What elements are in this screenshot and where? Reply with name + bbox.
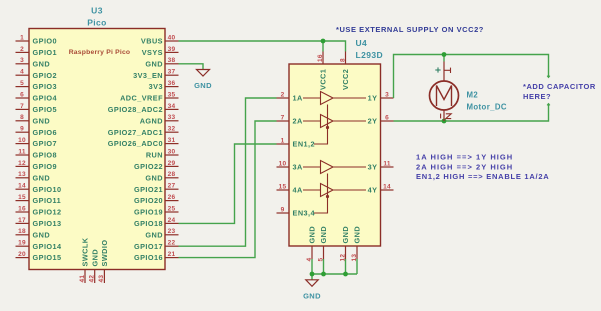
junction motor bottom [442, 119, 447, 124]
U4 pin 7 2A (left) [277, 114, 304, 125]
svg-text:2: 2 [20, 46, 24, 53]
svg-text:14: 14 [383, 183, 391, 190]
motor + mark [435, 67, 440, 72]
svg-text:EN1,2: EN1,2 [293, 140, 316, 149]
note: add capacitor here [523, 82, 596, 101]
U3 pin 15 GPIO11 (left) [16, 194, 62, 205]
svg-text:AGND: AGND [140, 116, 163, 125]
svg-text:4A: 4A [293, 186, 304, 195]
wire VBUS to VCC1/VCC2 [179, 41, 346, 52]
svg-text:2: 2 [281, 91, 285, 98]
svg-text:GPIO22: GPIO22 [134, 162, 163, 171]
wire GPIO16 to 2A [179, 121, 277, 258]
svg-text:1A HIGH ==> 1Y HIGH: 1A HIGH ==> 1Y HIGH [416, 153, 513, 162]
svg-text:M2: M2 [467, 91, 479, 100]
svg-text:VBUS: VBUS [141, 37, 163, 46]
ground symbol near U3 pin 38 [194, 70, 212, 91]
svg-text:GPIO20: GPIO20 [134, 196, 163, 205]
U3 pin 19 GPIO14 (left) [16, 240, 63, 251]
svg-text:GPIO11: GPIO11 [33, 196, 62, 205]
svg-text:GND: GND [90, 249, 99, 267]
U4 pin 12 GND (bottom) [339, 226, 350, 262]
svg-text:SWCLK: SWCLK [81, 237, 90, 266]
svg-text:27: 27 [168, 183, 176, 190]
svg-text:L293D: L293D [356, 50, 384, 60]
svg-text:3V3_EN: 3V3_EN [133, 71, 163, 80]
svg-text:20: 20 [18, 251, 26, 258]
U3 pin 22 GPIO17 (right) [134, 240, 179, 251]
U3 pin 20 GPIO15 (left) [16, 251, 62, 262]
wire GPIO17 to 1A [179, 98, 277, 246]
svg-text:32: 32 [168, 126, 176, 133]
svg-text:GPIO1: GPIO1 [33, 48, 58, 57]
svg-text:GPIO10: GPIO10 [33, 185, 62, 194]
U4 pin 13 GND (bottom) [351, 226, 362, 262]
svg-text:8: 8 [339, 58, 346, 62]
U4 pin 16 VCC1 (top) [317, 52, 328, 91]
U4 enable line EN3,4 [314, 174, 329, 214]
U3 pin 17 GPIO13 (left) [16, 217, 62, 228]
svg-text:33: 33 [168, 114, 176, 121]
svg-text:GPIO12: GPIO12 [33, 208, 62, 217]
U3 pin 26 GPIO20 (right) [134, 194, 179, 205]
svg-text:3V3: 3V3 [149, 82, 163, 91]
svg-text:GND: GND [353, 226, 362, 244]
svg-text:36: 36 [168, 80, 176, 87]
U4 pin 6 2Y (right) [368, 114, 394, 125]
U4 pin 2 1A (left) [277, 91, 304, 102]
svg-text:GND: GND [145, 173, 163, 182]
svg-text:ADC_VREF: ADC_VREF [120, 94, 163, 103]
svg-text:HERE?: HERE? [523, 92, 551, 101]
U3 pin 5 GPIO3 (left) [16, 80, 58, 91]
svg-text:1: 1 [20, 34, 24, 41]
dangling wire end top [547, 76, 550, 78]
U3 pin 18 GND (left) [16, 228, 51, 239]
motor M2 Motor_DC [430, 62, 459, 122]
U3 pin 35 ADC_VREF (right) [120, 91, 178, 102]
svg-text:GND: GND [145, 59, 163, 68]
U3 pin 40 VBUS (right) [141, 34, 179, 45]
svg-text:2A HIGH ==> 2Y HIGH: 2A HIGH ==> 2Y HIGH [416, 162, 513, 171]
U3 pin 31 GPIO26_ADC0 (right) [108, 137, 179, 148]
U3 pin 3 GND (left) [16, 57, 51, 68]
wire 1Y to motor + rail [394, 55, 549, 99]
U4 pin 9 EN3,4 (left) [277, 206, 316, 217]
svg-text:3: 3 [385, 91, 389, 98]
svg-text:22: 22 [168, 240, 176, 247]
svg-text:U4: U4 [356, 38, 368, 48]
U3 pin 30 RUN (right) [146, 148, 179, 159]
U4 pin 5 GND (bottom) [317, 226, 328, 262]
note: logic description [416, 153, 549, 182]
U3 pin 29 GPIO22 (right) [134, 160, 179, 171]
svg-text:19: 19 [18, 240, 26, 247]
svg-text:3A: 3A [293, 163, 304, 172]
svg-text:GND: GND [308, 226, 317, 244]
svg-text:*USE EXTERNAL SUPPLY ON VCC2?: *USE EXTERNAL SUPPLY ON VCC2? [336, 25, 484, 34]
svg-text:GND: GND [194, 81, 212, 90]
svg-text:3: 3 [20, 57, 24, 64]
U3 pin 9 GPIO6 (left) [16, 126, 58, 137]
svg-text:GND: GND [341, 226, 350, 244]
U3 pin 27 GPIO21 (right) [134, 183, 179, 194]
svg-text:GPIO4: GPIO4 [33, 94, 58, 103]
U3 pin 12 GPIO9 (left) [16, 160, 58, 171]
svg-text:3Y: 3Y [368, 163, 378, 172]
svg-text:41: 41 [79, 275, 86, 283]
U3 pin 28 GND (right) [145, 171, 178, 182]
U3 pin 13 GND (left) [16, 171, 51, 182]
svg-text:GPIO8: GPIO8 [33, 151, 58, 160]
svg-text:28: 28 [168, 171, 176, 178]
U3 pin 37 3V3_EN (right) [133, 69, 178, 80]
wire branch to VCC1 [322, 41, 324, 52]
svg-text:9: 9 [20, 126, 24, 133]
svg-text:GPIO18: GPIO18 [134, 219, 163, 228]
svg-text:GPIO13: GPIO13 [33, 219, 62, 228]
junction gnd bus 2 [321, 272, 326, 277]
U3 pin 23 GND (right) [145, 228, 178, 239]
svg-text:VSYS: VSYS [142, 48, 163, 57]
U4 pin 4 GND (bottom) [306, 226, 317, 262]
svg-text:VCC2: VCC2 [341, 69, 350, 90]
svg-text:23: 23 [168, 228, 176, 235]
U4 pin 1 EN1,2 (left) [277, 137, 316, 148]
svg-text:10: 10 [18, 137, 26, 144]
U3 pin 1 GPIO0 (left) [16, 34, 58, 45]
svg-text:12: 12 [18, 160, 26, 167]
svg-text:U3: U3 [91, 6, 103, 16]
U3 pin 34 GPIO28_ADC2 (right) [108, 103, 179, 114]
svg-text:6: 6 [385, 114, 389, 121]
U3 pin 7 GPIO5 (left) [16, 103, 58, 114]
U4 internal buffer 2 [303, 115, 366, 128]
svg-text:34: 34 [168, 103, 176, 110]
U3 pin 36 3V3 (right) [149, 80, 179, 91]
svg-text:11: 11 [383, 160, 390, 167]
svg-text:1A: 1A [293, 94, 304, 103]
svg-text:17: 17 [18, 217, 26, 224]
U4 internal buffer 1 [303, 92, 366, 105]
svg-text:GPIO2: GPIO2 [33, 71, 58, 80]
wire GPIO18 to EN1,2 [179, 144, 277, 223]
svg-text:5: 5 [20, 80, 24, 87]
svg-text:9: 9 [281, 206, 285, 213]
IC U3 Raspberry Pi Pico body [29, 29, 165, 270]
U3 pin 25 GPIO19 (right) [134, 205, 179, 216]
svg-text:18: 18 [18, 228, 26, 235]
junction motor top [442, 52, 447, 57]
svg-text:GPIO26_ADC0: GPIO26_ADC0 [108, 139, 163, 148]
svg-text:1: 1 [281, 137, 285, 144]
svg-text:16: 16 [317, 54, 324, 62]
U3 pin 41 SWCLK (bottom) [79, 237, 90, 283]
U4 enable line EN1,2 [314, 105, 329, 145]
svg-text:RUN: RUN [146, 151, 163, 160]
svg-text:29: 29 [168, 160, 176, 167]
svg-text:GPIO17: GPIO17 [134, 242, 163, 251]
svg-text:21: 21 [168, 251, 176, 258]
svg-text:GND: GND [33, 116, 51, 125]
svg-text:13: 13 [18, 171, 26, 178]
svg-text:4: 4 [20, 69, 24, 76]
svg-text:8: 8 [20, 114, 24, 121]
U3 pin 24 GPIO18 (right) [134, 217, 179, 228]
svg-text:2A: 2A [293, 117, 304, 126]
svg-text:GPIO0: GPIO0 [33, 37, 58, 46]
svg-text:35: 35 [168, 91, 176, 98]
svg-text:Raspberry Pi Pico: Raspberry Pi Pico [69, 49, 131, 56]
svg-text:38: 38 [168, 57, 176, 64]
svg-text:37: 37 [168, 69, 176, 76]
U3 pin 6 GPIO4 (left) [16, 91, 58, 102]
ground symbol under U4 [303, 280, 321, 301]
svg-text:Motor_DC: Motor_DC [467, 103, 507, 112]
svg-text:16: 16 [18, 205, 26, 212]
junction gnd bus 3 [343, 272, 348, 277]
dangling wire end bottom [547, 104, 550, 106]
junction VBUS/VCC1 [321, 39, 326, 44]
svg-text:GPIO14: GPIO14 [33, 242, 63, 251]
wire GND bus under U4 [312, 259, 357, 280]
svg-text:6: 6 [20, 91, 24, 98]
svg-text:42: 42 [89, 275, 96, 283]
svg-text:GND: GND [319, 226, 328, 244]
U3 pin 21 GPIO16 (right) [134, 251, 179, 262]
wire 2Y to motor - rail [394, 104, 549, 122]
U4 pin 15 4A (left) [277, 183, 304, 194]
svg-text:7: 7 [20, 103, 24, 110]
U3 pin 10 GPIO7 (left) [16, 137, 58, 148]
U3 pin 43 SWDIO (bottom) [98, 240, 109, 283]
svg-text:GPIO3: GPIO3 [33, 82, 58, 91]
svg-text:15: 15 [279, 183, 287, 190]
svg-text:1Y: 1Y [368, 94, 378, 103]
U3 pin 2 GPIO1 (left) [16, 46, 58, 57]
U3 pin 33 AGND (right) [140, 114, 179, 125]
svg-text:GND: GND [145, 230, 163, 239]
U3 pin 32 GPIO27_ADC1 (right) [108, 126, 179, 137]
wire drop to motor + [443, 55, 445, 62]
svg-text:*ADD CAPACITOR: *ADD CAPACITOR [523, 82, 596, 91]
svg-text:GND: GND [303, 292, 321, 301]
svg-text:14: 14 [18, 183, 26, 190]
svg-text:EN3,4: EN3,4 [293, 209, 316, 218]
svg-text:24: 24 [168, 217, 176, 224]
svg-text:GPIO21: GPIO21 [134, 185, 163, 194]
svg-text:GPIO6: GPIO6 [33, 128, 58, 137]
junction gnd bus 1 [310, 272, 315, 277]
svg-text:43: 43 [98, 275, 105, 283]
U4 pin 14 4Y (right) [368, 183, 394, 194]
U3 pin 11 GPIO8 (left) [16, 148, 58, 159]
U3 pin 42 GND (bottom) [89, 249, 100, 283]
svg-text:GND: GND [33, 59, 51, 68]
svg-text:4Y: 4Y [368, 186, 378, 195]
svg-text:GPIO27_ADC1: GPIO27_ADC1 [108, 128, 163, 137]
svg-text:2Y: 2Y [368, 117, 378, 126]
svg-text:GPIO16: GPIO16 [134, 253, 163, 262]
svg-text:Pico: Pico [87, 18, 107, 28]
svg-text:GND: GND [33, 173, 51, 182]
U4 pin 8 VCC2 (top) [339, 52, 350, 91]
U3 pin 39 VSYS (right) [142, 46, 179, 57]
svg-text:GPIO7: GPIO7 [33, 139, 58, 148]
svg-text:11: 11 [18, 148, 25, 155]
svg-text:30: 30 [168, 148, 176, 155]
svg-text:GPIO9: GPIO9 [33, 162, 58, 171]
U4 pin 10 3A (left) [277, 160, 304, 171]
U3 pin 4 GPIO2 (left) [16, 69, 58, 80]
svg-text:GPIO19: GPIO19 [134, 208, 163, 217]
svg-text:15: 15 [18, 194, 26, 201]
svg-text:10: 10 [279, 160, 287, 167]
U3 pin 8 GND (left) [16, 114, 51, 125]
svg-text:GND: GND [33, 230, 51, 239]
U4 pin 3 1Y (right) [368, 91, 394, 102]
svg-text:7: 7 [281, 114, 285, 121]
U4 internal buffer 4 [303, 184, 366, 197]
U3 pin 14 GPIO10 (left) [16, 183, 62, 194]
U4 internal buffer 3 [303, 161, 366, 174]
IC U4 L293D body [289, 64, 381, 246]
svg-text:31: 31 [168, 137, 176, 144]
svg-text:39: 39 [168, 46, 176, 53]
svg-text:40: 40 [168, 34, 176, 41]
wire Pico GND pin38 [179, 64, 204, 70]
svg-text:GPIO5: GPIO5 [33, 105, 58, 114]
svg-text:26: 26 [168, 194, 176, 201]
svg-text:SWDIO: SWDIO [100, 240, 109, 267]
svg-text:EN1,2 HIGH ==> ENABLE 1A/2A: EN1,2 HIGH ==> ENABLE 1A/2A [416, 172, 549, 181]
svg-text:GPIO28_ADC2: GPIO28_ADC2 [108, 105, 163, 114]
U4 pin 11 3Y (right) [368, 160, 394, 171]
svg-text:VCC1: VCC1 [319, 69, 328, 90]
U3 pin 38 GND (right) [145, 57, 178, 68]
U3 pin 16 GPIO12 (left) [16, 205, 62, 216]
svg-text:25: 25 [168, 205, 176, 212]
svg-text:GPIO15: GPIO15 [33, 253, 62, 262]
